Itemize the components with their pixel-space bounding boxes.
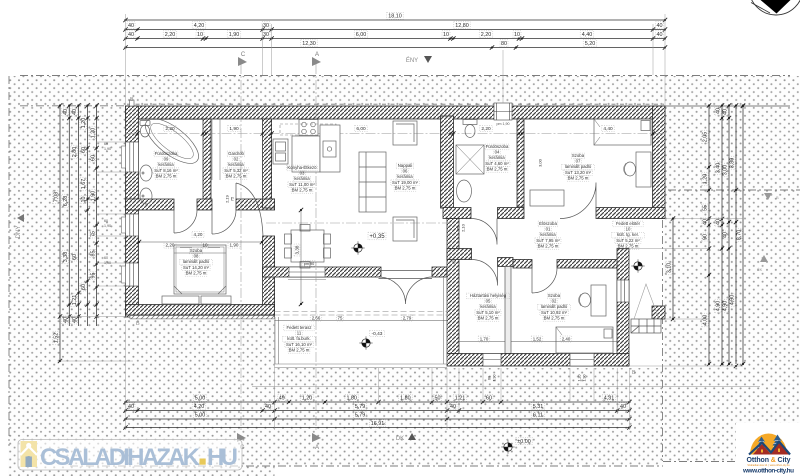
door bedroom1 arc — [236, 183, 263, 236]
sofa living — [359, 152, 386, 212]
svg-text:11: 11 — [297, 331, 302, 336]
window living south — [289, 267, 325, 277]
svg-text:30: 30 — [263, 32, 269, 38]
svg-text:2,10: 2,10 — [460, 223, 465, 232]
terrain reference line — [252, 386, 760, 388]
svg-text:75: 75 — [90, 231, 96, 237]
svg-text:1,21: 1,21 — [72, 295, 78, 306]
svg-text:12,30: 12,30 — [302, 41, 316, 47]
svg-text:Fedett terasz: Fedett terasz — [286, 325, 311, 330]
right exterior wall — [653, 106, 666, 219]
svg-text:6,28: 6,28 — [63, 196, 69, 207]
roofs red — [753, 444, 771, 455]
top dim line 1 — [123, 12, 667, 22]
right wing south wall — [447, 354, 629, 367]
svg-text:SuT 8,16 m²: SuT 8,16 m² — [154, 168, 178, 173]
kitchen fridge — [273, 139, 288, 164]
svg-text:ÉNY: ÉNY — [406, 57, 418, 64]
svg-text:8,70: 8,70 — [737, 230, 743, 241]
bed bedroom1 — [174, 245, 226, 294]
svg-text:1,90: 1,90 — [229, 126, 239, 132]
svg-text:3,38: 3,38 — [295, 245, 300, 254]
right wing west wall — [447, 219, 459, 354]
window sills left wall — [122, 146, 126, 283]
svg-text:laminált padló: laminált padló — [565, 164, 592, 169]
svg-text:BM 2,75 m: BM 2,75 m — [289, 347, 310, 352]
logo house icon — [21, 441, 38, 467]
svg-text:02: 02 — [552, 299, 557, 304]
svg-text:02: 02 — [234, 157, 239, 162]
room label: Szoba 02 — [538, 293, 571, 321]
svg-text:BM 2,75 m: BM 2,75 m — [292, 187, 313, 192]
svg-text:07: 07 — [576, 159, 581, 164]
toilet bathroom2 — [463, 120, 477, 125]
svg-text:4,00: 4,00 — [703, 315, 709, 326]
svg-text:SuT 4,60 m²: SuT 4,60 m² — [485, 161, 509, 166]
extension lines top — [126, 14, 666, 106]
svg-text:+0,35: +0,35 — [369, 234, 385, 240]
svg-text:4,31: 4,31 — [604, 396, 615, 402]
room label: Nappali 06 — [391, 163, 419, 191]
svg-text:12,80: 12,80 — [455, 23, 469, 29]
bottom dim line 4 — [123, 420, 631, 430]
svg-text:BM 2,75 m: BM 2,75 m — [618, 243, 639, 248]
axis dash-dot horizontal — [126, 133, 666, 135]
svg-text:B: B — [136, 321, 140, 327]
svg-text:90: 90 — [703, 234, 709, 240]
svg-text:Elöszoba: Elöszoba — [539, 221, 557, 226]
shower bathroom2 — [456, 145, 484, 174]
terrace french doors — [379, 271, 433, 305]
svg-text:SuT 10,92 m²: SuT 10,92 m² — [541, 310, 568, 315]
svg-text:SuT 19,00 m²: SuT 19,00 m² — [392, 180, 419, 185]
hall south piece — [498, 258, 514, 267]
svg-text:1,90: 1,90 — [104, 224, 111, 228]
door width labels rotated — [224, 158, 542, 232]
svg-text:SuT 14,20 m²: SuT 14,20 m² — [183, 265, 210, 270]
svg-text:BM 2,75 m: BM 2,75 m — [478, 315, 499, 320]
svg-text:80: 80 — [501, 41, 507, 47]
extension lines bottom — [126, 320, 630, 430]
pine tree right — [772, 435, 784, 454]
toilet bathroom1 — [140, 121, 150, 126]
south wall under bathroom2 — [443, 208, 471, 219]
south wall piece hall — [498, 208, 525, 219]
roof windows — [761, 450, 763, 453]
plot boundary bottom left segment — [70, 465, 663, 467]
bedroom2 north wall west piece — [513, 260, 532, 269]
svg-text:5,00: 5,00 — [195, 396, 206, 402]
window sill label living — [303, 261, 315, 266]
svg-text:06: 06 — [403, 169, 408, 174]
svg-text:DK: DK — [396, 436, 404, 442]
plot boundary top — [20, 75, 790, 77]
svg-text:40: 40 — [723, 109, 729, 115]
svg-text:C: C — [241, 52, 246, 58]
bottom dim line 2 — [123, 403, 631, 413]
room label: Fedett előtér 10 — [612, 221, 645, 249]
door bathroom2 — [471, 219, 497, 245]
svg-text:40: 40 — [657, 32, 663, 38]
svg-text:40: 40 — [265, 404, 271, 410]
svg-text:60: 60 — [104, 142, 108, 146]
section marker A bottom — [312, 433, 321, 451]
washbasin1 bathroom1 — [140, 165, 152, 181]
gardrobe closet lines — [212, 119, 220, 180]
left dim line 4 — [80, 103, 90, 326]
svg-text:6,00: 6,00 — [356, 32, 367, 38]
right dim line 2 — [715, 103, 725, 366]
vent above top wall — [130, 100, 135, 106]
svg-text:BM 2,75 m: BM 2,75 m — [487, 166, 508, 171]
terrain stipple: top band — [20, 76, 790, 106]
svg-text:85: 85 — [90, 251, 96, 257]
sun dome — [750, 434, 787, 455]
svg-text:16,91: 16,91 — [371, 421, 385, 427]
left dim line 2 — [62, 103, 72, 326]
top dim line 4 — [123, 40, 667, 50]
compass label ENY top — [406, 56, 432, 64]
svg-text:40: 40 — [450, 404, 456, 410]
bedroom1 internal dim — [137, 208, 303, 306]
door bedroom2 — [532, 268, 557, 293]
svg-text:03: 03 — [300, 171, 305, 176]
svg-text:40: 40 — [716, 108, 722, 114]
svg-text:Konyha-Étkezö: Konyha-Étkezö — [287, 165, 317, 170]
svg-text:40: 40 — [128, 23, 134, 29]
level marker +0,35 — [368, 232, 386, 240]
svg-text:1,90: 1,90 — [104, 261, 111, 265]
left dim line 1 — [52, 103, 62, 363]
svg-text:05: 05 — [486, 299, 491, 304]
armchair living lower — [393, 217, 417, 241]
sill labels south windows — [487, 375, 586, 382]
gardrobe/kitchen wall — [263, 119, 272, 199]
door bathroom1 — [174, 210, 197, 233]
svg-text:49: 49 — [279, 396, 285, 402]
hall south wall mid piece — [197, 199, 212, 210]
armchair living upper — [393, 121, 417, 145]
room label: Fedett terasz 11 — [283, 325, 316, 353]
svg-text:kerámia: kerámia — [540, 232, 556, 237]
svg-text:7,08: 7,08 — [54, 192, 60, 203]
washbasin2 bathroom1 — [140, 188, 152, 204]
living window sill — [288, 279, 326, 281]
svg-text:40: 40 — [72, 317, 78, 323]
svg-text:40: 40 — [72, 109, 78, 115]
interior width dim chain — [135, 125, 655, 135]
right dim line 5 — [736, 103, 746, 366]
svg-text:60: 60 — [81, 147, 87, 153]
svg-text:2,66: 2,66 — [312, 316, 321, 321]
svg-text:1,70: 1,70 — [480, 337, 489, 342]
kitchen stove — [299, 120, 318, 136]
compass marker right upper — [764, 193, 779, 200]
svg-text:Szoba: Szoba — [548, 293, 561, 298]
svg-text:www.otthon-city.hu: www.otthon-city.hu — [742, 468, 794, 475]
room label: Szoba 07 — [562, 153, 595, 181]
svg-text:laminált padló: laminált padló — [541, 304, 568, 309]
utility/bedroom2 partition — [505, 267, 511, 354]
svg-text:2,80: 2,80 — [72, 147, 78, 158]
svg-text:40: 40 — [620, 404, 626, 410]
svg-text:40: 40 — [63, 317, 69, 323]
svg-text:04: 04 — [495, 150, 500, 155]
section marker C bottom — [237, 433, 246, 451]
window bedroom1 west — [126, 263, 139, 286]
door bedroom3 — [560, 183, 596, 219]
top wall extension line right — [665, 105, 790, 107]
desk bedroom3 — [636, 152, 651, 187]
pine tree left — [757, 437, 767, 454]
svg-text:BM 2,75 m: BM 2,75 m — [538, 243, 559, 248]
room label: Fürdőszoba 04 — [484, 144, 510, 172]
window bedroom2 south — [570, 354, 594, 367]
window bedroom2 east — [617, 280, 629, 302]
svg-text:4,90: 4,90 — [723, 301, 729, 312]
door bedroom1 leaf — [235, 183, 237, 210]
dash line right of house — [668, 189, 800, 191]
svg-text:4,20: 4,20 — [194, 232, 203, 237]
utility north wall piece — [447, 249, 472, 260]
svg-text:1,21: 1,21 — [455, 396, 466, 402]
svg-text:08: 08 — [194, 254, 199, 259]
interior dim utility — [459, 341, 505, 343]
section line C vertical — [240, 64, 242, 432]
benchmark living — [351, 241, 364, 254]
roof outlines blue — [749, 442, 790, 455]
svg-text:10: 10 — [626, 227, 631, 232]
porch entry steps — [631, 319, 661, 333]
svg-text:2,40: 2,40 — [562, 337, 571, 342]
svg-text:75: 75 — [229, 196, 234, 201]
terrace edge lines — [275, 277, 448, 368]
door utility — [472, 260, 498, 286]
living/bathroom2 wall — [441, 116, 454, 208]
kitchen sink — [323, 141, 336, 157]
svg-text:DNY: DNY — [16, 226, 22, 239]
living south wall — [263, 267, 381, 277]
svg-text:kült. fa.burk.: kült. fa.burk. — [287, 336, 310, 341]
svg-text:A: A — [315, 445, 319, 451]
svg-text:40: 40 — [63, 109, 69, 115]
svg-text:HU: HU — [207, 444, 238, 471]
svg-text:18,10: 18,10 — [388, 14, 402, 20]
svg-text:3,40: 3,40 — [716, 163, 722, 174]
extension lines left — [60, 142, 133, 361]
svg-text:3,38: 3,38 — [63, 252, 69, 263]
svg-text:SuT 11,00 m²: SuT 11,00 m² — [289, 182, 315, 187]
svg-text:1,90: 1,90 — [229, 32, 240, 38]
boundary below band, left of house — [20, 105, 125, 107]
svg-text:60: 60 — [104, 256, 108, 260]
desk bedroom2 — [591, 285, 606, 316]
terrain stipple: bottom-left region — [8, 318, 275, 476]
svg-text:5,79: 5,79 — [355, 413, 366, 419]
svg-text:5,00: 5,00 — [195, 413, 206, 419]
svg-text:1,90: 1,90 — [90, 191, 96, 202]
svg-text:4,90: 4,90 — [730, 295, 736, 306]
window bathroom2 north — [494, 103, 512, 120]
svg-text:kerámia: kerámia — [489, 155, 505, 160]
svg-text:4,20: 4,20 — [194, 23, 205, 29]
svg-text:Fürdöszoba: Fürdöszoba — [155, 151, 178, 156]
svg-text:laminált padló: laminált padló — [183, 259, 210, 264]
svg-text:BM 2,75 m: BM 2,75 m — [186, 270, 207, 275]
svg-text:Gardrob: Gardrob — [228, 151, 244, 156]
svg-text:2,20: 2,20 — [165, 32, 176, 38]
svg-text:BM 2,75 m: BM 2,75 m — [395, 185, 416, 190]
left wing east wall — [263, 236, 275, 317]
svg-text:60: 60 — [90, 155, 96, 161]
terrain stipple: right region — [663, 76, 800, 462]
svg-text:60: 60 — [81, 284, 87, 290]
svg-text:kerámia: kerámia — [158, 162, 174, 167]
svg-text:60: 60 — [72, 254, 78, 260]
svg-text:2,05: 2,05 — [703, 132, 709, 143]
svg-text:6,11: 6,11 — [533, 413, 543, 419]
drip strip under wing south wall — [130, 316, 275, 319]
top exterior wall — [126, 106, 666, 119]
svg-text:3,00: 3,00 — [723, 165, 729, 176]
svg-text:kült. tg. ker.: kült. tg. ker. — [617, 232, 639, 237]
svg-text:B: B — [776, 195, 779, 200]
room label: Szoba 08 — [180, 248, 213, 276]
logo csaladihazak.hu — [18, 440, 242, 472]
svg-text:4,20: 4,20 — [194, 404, 205, 410]
svg-text:kerámia: kerámia — [294, 176, 310, 181]
svg-text:kerámia: kerámia — [397, 174, 413, 179]
svg-text:1,52: 1,52 — [54, 333, 60, 344]
svg-text:60: 60 — [104, 219, 108, 223]
svg-text:10: 10 — [514, 32, 520, 38]
svg-text:1,90: 1,90 — [230, 243, 239, 248]
svg-text:1,90: 1,90 — [104, 147, 111, 151]
svg-text:60: 60 — [487, 376, 491, 380]
svg-text:1,67: 1,67 — [81, 179, 87, 190]
extension lines right — [629, 219, 743, 367]
svg-text:01: 01 — [546, 227, 551, 232]
white mask for logo box — [736, 423, 800, 476]
svg-text:10: 10 — [443, 32, 449, 38]
bedroom2 north wall east piece — [557, 260, 624, 269]
svg-text:30: 30 — [263, 23, 269, 29]
svg-text:SuT 13,20 m²: SuT 13,20 m² — [565, 170, 592, 175]
benchmark porch — [631, 259, 644, 272]
svg-text:40: 40 — [716, 219, 722, 225]
svg-text:SuT 5,22 m²: SuT 5,22 m² — [616, 238, 640, 243]
svg-text:Szabadkai utca 14. | www.ottho: Szabadkai utca 14. | www.otthon-city.hu — [747, 464, 790, 467]
svg-text:40: 40 — [723, 232, 729, 238]
bottom dim line 3 — [123, 411, 631, 421]
svg-text:5,20: 5,20 — [585, 41, 596, 47]
svg-text:kerámia: kerámia — [228, 162, 244, 167]
bed bedroom3 — [594, 119, 651, 145]
svg-text:40: 40 — [657, 23, 663, 29]
svg-text:kerámia: kerámia — [480, 304, 496, 309]
svg-text:SuT 5,32 m²: SuT 5,32 m² — [224, 168, 248, 173]
svg-text:10: 10 — [202, 243, 208, 248]
window left wall middle — [126, 214, 139, 236]
porch dim line — [666, 216, 676, 321]
extension line window bath2 — [502, 50, 504, 103]
left dim line 5 — [89, 103, 99, 326]
door gardrobe arc — [212, 210, 236, 234]
left exterior wall — [126, 106, 139, 317]
svg-text:pm 90: pm 90 — [304, 262, 315, 266]
porch corner post — [652, 306, 665, 319]
compass marker right lower ek — [757, 255, 768, 272]
svg-text:1,80: 1,80 — [400, 396, 411, 402]
washbasin bathroom2 — [457, 180, 472, 202]
svg-text:4,40: 4,40 — [603, 126, 613, 132]
top dim line 2 — [123, 22, 667, 32]
svg-text:3,00: 3,00 — [537, 158, 542, 167]
svg-text:2,20: 2,20 — [165, 126, 175, 132]
svg-text:Fedett elötér: Fedett elötér — [616, 221, 641, 226]
kitchen upper cabinets dashed — [280, 124, 336, 135]
svg-text:Otthon & City: Otthon & City — [747, 457, 791, 464]
svg-text:2,20: 2,20 — [481, 32, 492, 38]
axis dash-dot hall row — [266, 222, 450, 224]
terrace dashed lines — [275, 311, 448, 313]
svg-text:Szoba: Szoba — [190, 248, 203, 253]
bench2 bedroom1 — [201, 296, 231, 304]
right dim line 4 — [729, 103, 739, 368]
left dim line 3 — [71, 103, 81, 326]
bathroom1/gardrobe partition wall — [203, 119, 211, 199]
dining table — [291, 230, 324, 262]
window utility south — [483, 354, 501, 367]
bottom dim line 1 — [123, 394, 631, 404]
svg-text:-0,43: -0,43 — [372, 331, 383, 337]
svg-text:60: 60 — [486, 396, 492, 402]
svg-text:55: 55 — [703, 205, 709, 211]
svg-text:Szoba: Szoba — [572, 153, 585, 158]
svg-text:75: 75 — [338, 316, 343, 321]
svg-text:40: 40 — [128, 404, 134, 410]
hall south wall west piece — [126, 199, 175, 210]
svg-text:1,20: 1,20 — [302, 396, 313, 402]
level marker -0,43 terrace — [370, 330, 385, 337]
compass label DNY left — [16, 214, 24, 238]
svg-text:6,00: 6,00 — [356, 126, 366, 132]
eaves dash line above top wall — [127, 103, 664, 105]
white mask below bottom-left dash — [275, 467, 663, 476]
svg-text:CSALADIHAZAK: CSALADIHAZAK — [40, 444, 201, 471]
svg-text:Háztartási helyiség: Háztartási helyiség — [470, 293, 507, 298]
svg-text:1,20: 1,20 — [577, 375, 581, 382]
benchmark site ±0,00 — [501, 440, 514, 453]
bathtub bathroom1 — [138, 111, 205, 172]
plot boundary bottom right segment — [663, 461, 736, 463]
svg-text:1,20: 1,20 — [90, 128, 96, 139]
svg-text:A: A — [315, 52, 319, 58]
room label: Gardrob 02 — [223, 151, 249, 179]
right dim line 3 — [722, 103, 732, 366]
room label: Háztartási helyiség 05 — [466, 293, 509, 321]
bed bedroom2 — [556, 327, 613, 353]
svg-text:3,10: 3,10 — [667, 263, 673, 274]
svg-text:5,31: 5,31 — [533, 404, 544, 410]
bathroom2/bedroom3 wall — [517, 119, 524, 207]
svg-text:4,40: 4,40 — [582, 32, 593, 38]
plot boundary left — [8, 76, 10, 446]
svg-text:SuT 16,10 m²: SuT 16,10 m² — [286, 342, 313, 347]
svg-text:95: 95 — [90, 273, 96, 279]
svg-text:10: 10 — [197, 32, 203, 38]
svg-text:50: 50 — [435, 396, 441, 402]
